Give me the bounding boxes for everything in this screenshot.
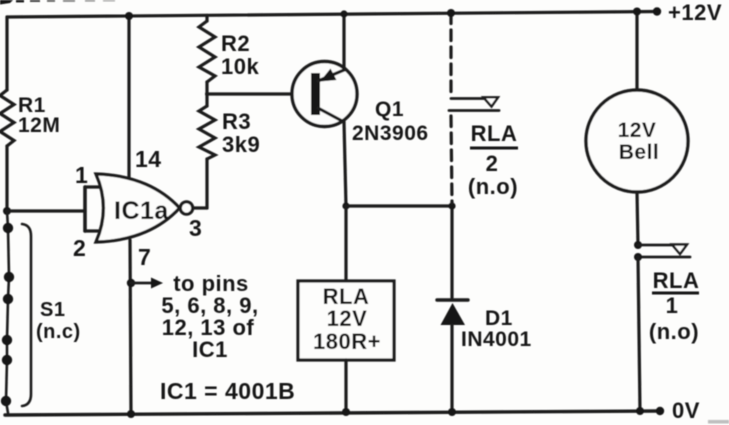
svg-text:2: 2 [73,235,86,261]
wire left vertical from +12V rail to R1 [5,17,8,90]
svg-text:Bell: Bell [619,141,660,164]
wire 0V bottom rail [5,411,660,415]
resistor R3 [199,94,215,208]
node dot RLA/1 fixed [634,253,642,261]
svg-text:D1: D1 [485,307,513,330]
node dot RLA/2 at top rail [447,9,455,17]
node dot emitter at top rail [340,10,347,17]
svg-text:2N3906: 2N3906 [352,122,429,145]
node input junction dot [3,207,11,215]
svg-text:IC1 = 4001B: IC1 = 4001B [160,378,295,404]
node dot pin14 wire at top rail [125,12,133,20]
wire Q1 emitter to +12V rail [342,14,345,70]
node dot RLA/1 arm [634,241,642,249]
svg-text:14: 14 [135,146,162,172]
svg-text:12M: 12M [18,114,60,137]
switch S1 (n.c) contact chain [1,211,14,413]
svg-text:(n.o): (n.o) [649,319,699,344]
S1 bracket [22,224,31,406]
svg-text:0V: 0V [672,398,700,423]
wire RLA/1 to 0V rail [638,257,640,411]
label to pins 5,6,8,9,12,13 of IC1 [161,271,258,362]
wire input node to gate inputs [7,209,85,212]
wire Q1 collector down to relay node [344,122,346,206]
svg-text:S1: S1 [40,299,65,321]
node dot bell at top rail [633,8,641,16]
wire bell to +12V rail [635,12,638,91]
diode D1 IN4001 [437,206,468,412]
node pin7 junction dot [127,279,135,287]
wire +12V top supply rail [7,12,657,18]
node D1 top junction dot [448,202,455,209]
relay contact RLA/2 dashed wire lower [451,116,452,203]
svg-text:1: 1 [666,293,679,318]
svg-text:3k9: 3k9 [222,132,260,157]
wire collector node to D1 node [346,204,452,207]
relay contact RLA/1 moving arm [638,245,687,255]
wire pin 2 stub [85,229,101,232]
terminal dot +12V [653,7,661,15]
svg-text:10k: 10k [221,54,259,79]
svg-text:IC1: IC1 [192,337,228,362]
svg-text:1: 1 [75,162,88,188]
svg-text:Q1: Q1 [375,98,404,121]
wire pin 7 from gate bottom to 0V rail [130,240,131,414]
svg-text:12V: 12V [618,119,657,142]
node D1 0V rail dot [448,408,456,416]
terminal dot 0V [656,407,664,415]
node relay coil 0V dot [342,408,350,416]
wire pin 1 stub [85,185,101,188]
wire bell to RLA/1 contact [637,192,638,245]
wire output bubble to R3 [193,206,207,209]
relay contact RLA/2 moving arm [451,97,498,106]
svg-text:IN4001: IN4001 [461,328,532,351]
transistor Q1 2N3906 [292,62,357,127]
svg-text:R3: R3 [222,109,251,134]
wire pin 14 from +12V rail to gate top [127,16,130,180]
arrow to pins [131,278,163,289]
output bubble [180,202,192,214]
svg-text:3: 3 [189,215,202,241]
wire relay coil to 0V rail [344,360,347,412]
bell 12V [586,90,688,192]
svg-text:180R+: 180R+ [313,329,381,354]
svg-text:R2: R2 [221,31,250,56]
relay contact RLA/2 dashed wire upper [449,13,452,95]
node pin7 to 0V rail dot [127,410,135,418]
node collector junction dot [342,202,349,209]
op-amp gate IC1a (NOR) body [96,174,180,242]
relay contact RLA/1 fixed contact [637,256,690,259]
relay coil RLA 12V 180R+ box [298,281,394,360]
resistor R2 [199,16,215,95]
label RLA 1 (n.o) [649,268,699,344]
wire collector node to relay coil [344,206,347,281]
svg-text:(n.c): (n.c) [36,321,81,343]
wire base node to Q1 base [207,92,295,95]
relay contact RLA/2 fixed contact [449,109,499,112]
svg-text:+12V: +12V [668,0,722,25]
svg-text:IC1a: IC1a [114,197,169,225]
resistor R1 [0,90,14,146]
wire R1 to input node [5,146,8,211]
svg-text:7: 7 [138,244,151,270]
svg-text:12V: 12V [327,306,368,331]
svg-text:RLA: RLA [471,121,518,146]
svg-text:RLA: RLA [653,268,700,293]
node dot RLA/1 at 0V rail [636,407,644,415]
wire input tie bar [83,187,87,231]
svg-text:(n.o): (n.o) [468,174,518,199]
svg-text:2: 2 [486,151,499,176]
node base node junction [205,92,209,96]
label RLA 2 (n.o) [468,121,518,199]
